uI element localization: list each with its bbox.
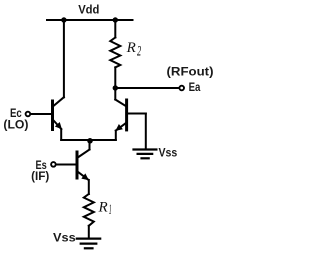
- svg-text:Ea: Ea: [189, 80, 201, 94]
- wire Vdd rail: [47, 19, 133, 21]
- wire Q1 emitter riser: [60, 129, 62, 140]
- svg-text:(RFout): (RFout): [167, 65, 214, 79]
- node common emitter junction: [87, 138, 93, 144]
- transistor Q2: [115, 100, 146, 131]
- node RFout junction: [113, 85, 118, 90]
- terminal Ea (open circle): [179, 86, 184, 91]
- svg-text:R: R: [98, 199, 108, 215]
- svg-text:Vss: Vss: [159, 145, 178, 159]
- wire Q2 emitter riser: [115, 131, 117, 140]
- wire output line: [115, 87, 179, 89]
- terminal Es (open circle): [51, 162, 56, 167]
- transistor Q1: [31, 97, 64, 129]
- svg-text:2: 2: [137, 44, 141, 60]
- resistor R2: [110, 38, 120, 68]
- svg-text:(LO): (LO): [3, 118, 28, 132]
- svg-text:Vdd: Vdd: [78, 3, 99, 17]
- wire Q3 emitter riser: [88, 180, 90, 194]
- svg-text:1: 1: [109, 202, 112, 218]
- wire right branch riser top (Vdd to R2): [114, 20, 116, 38]
- resistor R1: [84, 194, 94, 226]
- wire common emitter line: [61, 139, 116, 141]
- svg-text:(IF): (IF): [31, 169, 49, 183]
- wire R2 bottom to output node: [114, 67, 116, 99]
- node Vdd-left junction: [61, 17, 66, 22]
- transistor Q3: [56, 150, 90, 181]
- wire R1 to ground: [88, 226, 90, 237]
- terminal Ec (open circle): [26, 112, 31, 117]
- wire left branch riser: [63, 20, 65, 97]
- ground (bottom Vss): [77, 239, 100, 249]
- node Vdd-R2 junction: [113, 17, 118, 22]
- wire Q3 collector riser: [89, 140, 91, 150]
- svg-text:Vss: Vss: [53, 231, 76, 245]
- wire Q2 base to ground: [145, 114, 147, 149]
- ground (right Vss): [134, 150, 157, 159]
- svg-text:R: R: [126, 40, 136, 56]
